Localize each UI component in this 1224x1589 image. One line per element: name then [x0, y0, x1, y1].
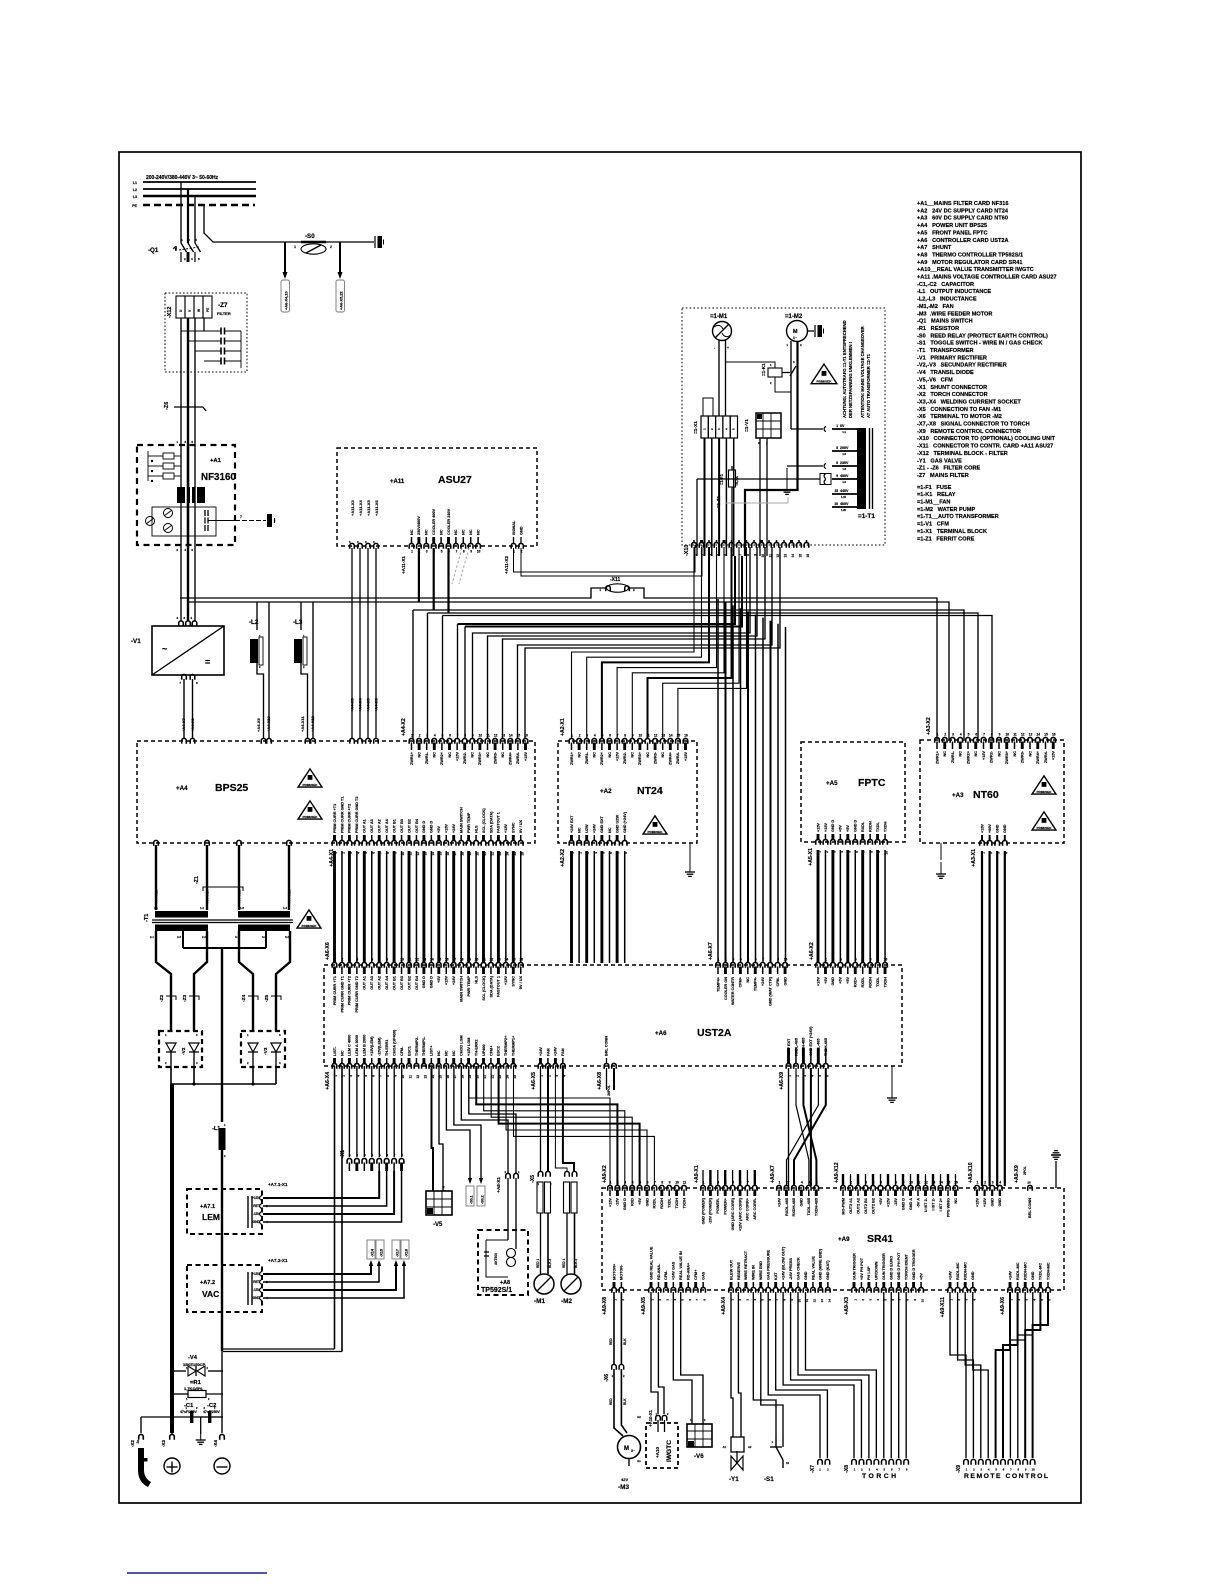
svg-text:7: 7	[654, 1181, 656, 1185]
svg-text:+5V: +5V	[638, 1198, 642, 1205]
svg-text:2: 2	[786, 1181, 788, 1185]
svg-text:+A4-X14: +A4-X14	[205, 888, 210, 905]
svg-text:2.3: 2.3	[177, 935, 181, 939]
svg-text:+5V: +5V	[839, 977, 843, 984]
svg-text:LEM: LEM	[202, 1212, 220, 1222]
svg-text:=1-M1: =1-M1	[710, 314, 728, 320]
svg-text:-S1: -S1	[764, 1476, 774, 1483]
svg-text:1: 1	[977, 1181, 979, 1185]
svg-text:SDA (DATA): SDA (DATA)	[489, 811, 493, 833]
svg-text:2.2: 2.2	[202, 935, 206, 939]
svg-text:+A9-X1: +A9-X1	[694, 1165, 700, 1183]
svg-text:47nF/250V: 47nF/250V	[203, 1410, 221, 1414]
svg-text:OUT A3: OUT A3	[370, 976, 374, 990]
svg-text:2POL: 2POL	[1023, 1166, 1027, 1175]
svg-text:1.1: 1.1	[842, 430, 846, 434]
svg-text:9: 9	[669, 1181, 671, 1185]
svg-text:GND: GND	[971, 1271, 975, 1280]
svg-text:NC: NC	[1028, 751, 1032, 757]
svg-text:-L1 OUTPUT INDUCTANCE: -L1 OUTPUT INDUCTANCE	[917, 289, 991, 295]
svg-text:-Y1: -Y1	[729, 1476, 739, 1483]
svg-text:+A5 FRONT PANEL FPTC: +A5 FRONT PANEL FPTC	[917, 230, 988, 236]
svg-text:TXDH: TXDH	[883, 821, 887, 832]
svg-text:+24V (BLOW OUT): +24V (BLOW OUT)	[781, 1246, 785, 1280]
net label +A6-X5,22	[336, 280, 345, 312]
footer link line	[127, 1572, 267, 1574]
svg-text:WATER CONTR: WATER CONTR	[731, 977, 735, 1005]
svg-text:10: 10	[1005, 733, 1009, 737]
svg-text:NC: NC	[452, 1050, 456, 1056]
diode V2b	[189, 1043, 199, 1052]
svg-text:+15V: +15V	[252, 1196, 261, 1200]
svg-text:ZWR2-: ZWR2-	[990, 750, 994, 763]
connector +A11-X3..X6 pins	[350, 543, 355, 548]
svg-text:6: 6	[975, 733, 977, 737]
svg-text:ZWR4+: ZWR4+	[1036, 750, 1040, 764]
svg-text:+A9-X10: +A9-X10	[968, 1162, 974, 1183]
wire phase taps to Q1	[180, 182, 182, 243]
wire feeder motor M3	[614, 1369, 623, 1436]
svg-text:THERMP2-: THERMP2-	[415, 1036, 419, 1056]
svg-text:1.6: 1.6	[240, 906, 244, 910]
svg-text:42V: 42V	[621, 1477, 628, 1482]
svg-text:=1-V1 CFM: =1-V1 CFM	[917, 522, 949, 528]
svg-text:ZWR4-: ZWR4-	[676, 751, 680, 764]
svg-text:RXDH: RXDH	[868, 821, 872, 832]
svg-text:TXDL: TXDL	[876, 821, 880, 832]
svg-text:RET: RET	[253, 1204, 261, 1208]
svg-text:-X11: -X11	[610, 577, 621, 583]
wire bundle -X10 to BPS25 +A4-X2 cascade	[473, 547, 751, 739]
svg-text:PRIM CURR +T1: PRIM CURR +T1	[333, 976, 337, 1005]
svg-text:+A6-X2: +A6-X2	[809, 942, 815, 960]
svg-text:RXDL: RXDL	[861, 821, 865, 832]
svg-text:-Z5: -Z5	[264, 994, 270, 1002]
svg-text:BLK: BLK	[623, 1338, 627, 1345]
svg-text:RXD: RXD	[631, 1198, 635, 1206]
svg-text:-X14: -X14	[371, 1248, 375, 1257]
warning triangle NT60 upper	[1032, 776, 1056, 794]
svg-text:+24V: +24V	[539, 1047, 543, 1056]
svg-text:BRL CONN: BRL CONN	[1028, 1198, 1032, 1218]
svg-text:UZW: UZW	[585, 824, 589, 833]
svg-text:=1-V1: =1-V1	[744, 419, 750, 432]
svg-text:=1-M1__FAN: =1-M1__FAN	[917, 500, 950, 506]
svg-text:=1-F1 FUSE: =1-F1 FUSE	[917, 485, 952, 491]
svg-text:ESC1: ESC1	[407, 1046, 411, 1056]
warning triangle NT24	[643, 816, 667, 834]
svg-text:+A7 SHUNT: +A7 SHUNT	[917, 245, 952, 251]
svg-text:4: 4	[594, 734, 596, 738]
svg-text:A1: A1	[637, 1459, 641, 1463]
svg-text:ESC2: ESC2	[497, 1046, 501, 1056]
svg-text:3: 3	[586, 734, 588, 738]
svg-text:20POL: 20POL	[607, 1085, 611, 1096]
svg-text:NC: NC	[417, 752, 421, 758]
svg-text:2: 2	[330, 245, 332, 249]
svg-text:=1-Z1 FERRIT CORE: =1-Z1 FERRIT CORE	[917, 536, 975, 542]
svg-text:200V: 200V	[840, 446, 849, 450]
svg-text:BLK 2: BLK 2	[548, 1259, 552, 1268]
svg-text:GND: GND	[645, 1198, 649, 1207]
svg-text:TXDH: TXDH	[883, 977, 887, 988]
svg-text:-X12 TERMINAL BLOCK - FILTER: -X12 TERMINAL BLOCK - FILTER	[917, 451, 1008, 457]
svg-text:+A7.2-X1: +A7.2-X1	[268, 1258, 288, 1263]
svg-text:LIST-: LIST-	[333, 1046, 337, 1056]
svg-text:TEMP4-: TEMP4-	[754, 976, 758, 991]
svg-text:OUT2 B2: OUT2 B2	[871, 1198, 875, 1214]
svg-text:12: 12	[416, 1075, 420, 1079]
svg-text:NC: NC	[746, 977, 750, 983]
svg-text:1: 1	[294, 245, 296, 249]
svg-text:GND UZW: GND UZW	[615, 814, 619, 833]
svg-text:LIST+: LIST+	[430, 1045, 434, 1056]
svg-text:5: 5	[639, 1181, 641, 1185]
svg-text:LEM A 3000: LEM A 3000	[355, 1035, 359, 1056]
svg-text:1: 1	[334, 1075, 338, 1077]
svg-text:GND D EURO: GND D EURO	[890, 1256, 894, 1280]
svg-text:-Q1 MAINS SWITCH: -Q1 MAINS SWITCH	[917, 319, 973, 325]
svg-text:-X7,-X8 SIGNAL CONNECTOR TO: -X7,-X8 SIGNAL CONNECTOR TO TORCH	[917, 422, 1030, 428]
svg-text:NF3160: NF3160	[201, 472, 236, 483]
svg-text:-X5 CONNECTION TO FAN -M1: -X5 CONNECTION TO FAN -M1	[917, 407, 1001, 413]
earth NT24	[689, 843, 691, 857]
svg-text:+15V: +15V	[816, 823, 820, 832]
motor connector second	[565, 1171, 570, 1176]
bus wire 3	[413, 610, 964, 739]
svg-text:2x: 2x	[136, 1440, 140, 1444]
svg-text:-X3,-X4 WELDING CURRENT SOCK: -X3,-X4 WELDING CURRENT SOCKET	[917, 399, 1021, 405]
svg-text:ACHTUNG: AUTOTRAFO =1-T1 ENTSP: ACHTUNG: AUTOTRAFO =1-T1 ENTSPRECHEND	[842, 320, 847, 418]
svg-text:GND: GND	[998, 1198, 1002, 1207]
svg-text:RXDL: RXDL	[861, 976, 865, 987]
svg-text:+A1: +A1	[210, 458, 222, 464]
svg-text:UP400: UP400	[482, 1044, 486, 1056]
svg-text:-X17: -X17	[396, 1249, 400, 1257]
svg-text:-X10: -X10	[684, 545, 690, 556]
power unit card A4 BPS25 box	[137, 741, 535, 843]
svg-text:ARC CORR+: ARC CORR+	[746, 1197, 750, 1220]
svg-text:M: M	[624, 1446, 629, 1452]
svg-text:13: 13	[661, 734, 665, 738]
svg-text:+A9-X11: +A9-X11	[940, 1297, 946, 1317]
svg-text:GND EXT: GND EXT	[600, 815, 604, 833]
svg-text:+15V: +15V	[982, 751, 986, 760]
fan -M1	[534, 1274, 554, 1294]
svg-text:BLK 2: BLK 2	[574, 1259, 578, 1268]
svg-text:-C1,-C2 CAPACITOR: -C1,-C2 CAPACITOR	[917, 282, 974, 288]
svg-text:NC: NC	[469, 529, 473, 535]
svg-text:+A7.2: +A7.2	[200, 1280, 215, 1286]
svg-text:A2: A2	[637, 1415, 641, 1419]
svg-text:ZWR4+: ZWR4+	[669, 751, 673, 765]
svg-text:+5V: +5V	[846, 825, 850, 832]
svg-text:+A6-X6: +A6-X6	[325, 942, 331, 960]
thermo switches	[507, 1249, 516, 1258]
svg-text:RXDH-485: RXDH-485	[792, 1198, 796, 1216]
wire LEM to shunt connector	[263, 1171, 379, 1198]
svg-text:4: 4	[740, 958, 742, 962]
wire T1 center taps	[182, 931, 184, 948]
svg-text:PH LSP: PH LSP	[867, 1266, 871, 1280]
svg-text:GND: GND	[831, 977, 835, 986]
svg-text:REAL VALUE IN: REAL VALUE IN	[679, 1251, 683, 1280]
svg-text:10: 10	[639, 734, 643, 738]
svg-text:3: 3	[624, 1181, 626, 1185]
svg-text:2: 2	[710, 1181, 712, 1185]
svg-text:FPTC: FPTC	[858, 777, 886, 789]
svg-text:COOLER 230V: COOLER 230V	[447, 508, 451, 535]
svg-text:PRIM/SEK: PRIM/SEK	[817, 379, 833, 383]
wire cascade UST2A X4 to V5 and thermo	[432, 1066, 434, 1191]
warning triangle BPS25 upper	[298, 769, 322, 787]
svg-text:-S0 REED RELAY (PROTECT EART: -S0 REED RELAY (PROTECT EARTH CONTROL)	[917, 333, 1048, 339]
svg-text:-M3 .WIRE FEEDER MOTOR: -M3 .WIRE FEEDER MOTOR	[917, 311, 992, 317]
svg-text:L2: L2	[133, 188, 137, 192]
svg-text:FAN: FAN	[561, 1048, 565, 1056]
svg-text:+A4-X10: +A4-X10	[266, 715, 271, 732]
svg-text:-Z6: -Z6	[164, 402, 170, 410]
svg-text:1: 1	[571, 734, 573, 738]
svg-text:+15V: +15V	[983, 1198, 987, 1207]
wire stubs above SR41 X1	[702, 1170, 704, 1186]
svg-text:CFM-: CFM-	[664, 1270, 668, 1280]
svg-text:NC: NC	[501, 752, 505, 758]
svg-text:1: 1	[411, 734, 413, 738]
svg-text:UST2A: UST2A	[697, 1027, 732, 1039]
svg-text:+A9-X6: +A9-X6	[1000, 1297, 1006, 1315]
svg-text:400V: 400V	[840, 474, 849, 478]
svg-text:U IST 2-: U IST 2-	[924, 1197, 928, 1212]
svg-text:-Z7 MAINS FILTER: -Z7 MAINS FILTER	[917, 473, 969, 479]
wire bundle BPS25 X1 to UST2A X6	[333, 851, 336, 963]
svg-text:-X12: -X12	[167, 307, 173, 318]
svg-text:L1: L1	[133, 181, 137, 185]
svg-text:RXDH: RXDH	[660, 1198, 664, 1209]
svg-text:GND D: GND D	[430, 821, 434, 833]
wire UST2A X8 stubs	[606, 1068, 608, 1090]
svg-text:+24V: +24V	[761, 977, 765, 986]
svg-text:GAS PRESSURE: GAS PRESSURE	[767, 1249, 771, 1280]
svg-text:-X2: -X2	[130, 1440, 135, 1448]
svg-text:=: =	[205, 657, 210, 667]
svg-text:-X18: -X18	[405, 1249, 409, 1257]
svg-text:NC: NC	[445, 1050, 449, 1056]
svg-text:+A10__REAL VALUE TRANSMITTER I: +A10__REAL VALUE TRANSMITTER IWGTC	[917, 267, 1034, 273]
wire ASU27 X2 to aux unit	[514, 545, 696, 572]
wire PE tap to earth check	[204, 205, 301, 242]
svg-text:THERMP1-: THERMP1-	[422, 1036, 426, 1056]
wire center tap down (welding output minus)	[221, 948, 223, 1122]
svg-text:GND REAL VALUE: GND REAL VALUE	[649, 1246, 653, 1280]
svg-text:ZWR2-: ZWR2-	[463, 751, 467, 764]
svg-text:GND: GND	[1003, 824, 1007, 833]
connector sockets BPS25 top-left wires	[182, 738, 187, 743]
svg-text:GND (ARC CORR): GND (ARC CORR)	[731, 1197, 735, 1230]
svg-text:+: +	[727, 346, 729, 350]
wire bundle -X10 to NT24 +A2-X1 cascade	[572, 547, 695, 739]
svg-text:-L2,-L3 INDUCTANCE: -L2,-L3 INDUCTANCE	[917, 297, 977, 303]
svg-text:CHOA (UP400): CHOA (UP400)	[392, 1029, 396, 1056]
svg-text:FASTOUT 1: FASTOUT 1	[497, 812, 501, 833]
svg-text:GND D: GND D	[854, 820, 858, 832]
svg-text:5: 5	[602, 734, 604, 738]
svg-text:+A11-X5: +A11-X5	[366, 500, 371, 516]
svg-text:9: 9	[777, 958, 779, 962]
svg-text:TH-ERR1: TH-ERR1	[385, 1040, 389, 1056]
svg-text:NC: NC	[943, 751, 947, 757]
svg-text:L3: L3	[133, 195, 137, 199]
svg-text:PRIM/SEK: PRIM/SEK	[648, 830, 664, 834]
svg-text:ZWR1-: ZWR1-	[425, 751, 429, 764]
svg-text:BLK: BLK	[623, 1398, 627, 1405]
svg-text:2: 2	[725, 958, 727, 962]
svg-text:PRIM CURR +T1: PRIM CURR +T1	[333, 804, 337, 833]
Z7 filter capacitors	[181, 330, 221, 332]
svg-text:+5V: +5V	[824, 977, 828, 984]
svg-text:NC: NC	[974, 751, 978, 757]
front panel card A5 FPTC box	[801, 742, 905, 842]
svg-text:+A11-X1: +A11-X1	[401, 556, 406, 574]
svg-text:RESERVE: RESERVE	[737, 1261, 741, 1280]
svg-text:NC: NC	[593, 752, 597, 758]
svg-text:GND: GND	[252, 1296, 260, 1300]
svg-text:230V/400V: 230V/400V	[417, 516, 421, 535]
svg-text:MOTOR-: MOTOR-	[620, 1264, 624, 1280]
svg-text:NC: NC	[476, 529, 480, 535]
svg-text:9: 9	[836, 474, 838, 478]
svg-text:PRIM CURR GND T2: PRIM CURR GND T2	[355, 797, 359, 834]
svg-text:PRIM/SEK: PRIM/SEK	[302, 924, 318, 928]
svg-text:GND: GND	[804, 1271, 808, 1280]
svg-text:=1-X1: =1-X1	[693, 421, 699, 434]
svg-text:+A4-X4: +A4-X4	[357, 698, 362, 712]
svg-text:+5V PH POT: +5V PH POT	[860, 1257, 864, 1280]
svg-text:+A6-X5: +A6-X5	[531, 1072, 537, 1090]
svg-text:+A9-X12: +A9-X12	[834, 1162, 840, 1183]
svg-text:+A9-X2: +A9-X2	[602, 1165, 608, 1183]
net labels -X17 -X18	[392, 1240, 400, 1259]
wire BPS25 to transformer T1 primary	[154, 840, 159, 845]
svg-text:ZWR1+: ZWR1+	[935, 750, 939, 764]
svg-text:4: 4	[632, 1181, 634, 1185]
svg-text:+A4-X16: +A4-X16	[287, 888, 292, 905]
svg-text:-X6: -X6	[604, 1374, 610, 1382]
svg-text:8: 8	[464, 734, 466, 738]
svg-text:3: 3	[733, 958, 735, 962]
svg-text:6: 6	[755, 958, 757, 962]
svg-text:+A9-X4: +A9-X4	[721, 1297, 727, 1315]
svg-text:+A9-X9: +A9-X9	[1014, 1165, 1020, 1183]
svg-text:PWR TEMP: PWR TEMP	[467, 812, 471, 833]
plus terminal	[164, 1458, 180, 1474]
svg-text:15: 15	[517, 734, 521, 738]
svg-text:+A8-X1: +A8-X1	[496, 1177, 501, 1193]
svg-text:5: 5	[732, 1181, 734, 1185]
svg-text:+5V: +5V	[879, 1198, 883, 1205]
svg-text:OUT B3: OUT B3	[400, 819, 404, 833]
svg-text:13: 13	[423, 1075, 427, 1079]
svg-text:POWER-: POWER-	[716, 1197, 720, 1213]
wire SR41 X5 to CFM V6	[673, 1292, 692, 1424]
wire L1 down to ladder	[221, 1150, 223, 1351]
svg-text:14: 14	[669, 734, 673, 738]
svg-text:-X1: -X1	[340, 1150, 346, 1158]
svg-text:PRIM/SEK: PRIM/SEK	[1037, 790, 1053, 794]
svg-text:GND A: GND A	[909, 1198, 913, 1210]
CFM -V6	[687, 1424, 712, 1447]
svg-text:ATTENTION: MAINS VOLTAGE CHANG: ATTENTION: MAINS VOLTAGE CHANGEOVER	[860, 326, 865, 418]
wire FPTC X1 down to UST2A X2	[817, 850, 820, 963]
svg-text:11: 11	[1013, 733, 1017, 737]
svg-text:1.6: 1.6	[842, 467, 846, 471]
svg-text:GND D PH POT: GND D PH POT	[897, 1252, 901, 1280]
svg-text:SDA (DATA): SDA (DATA)	[489, 975, 493, 997]
svg-text:GND D: GND D	[430, 976, 434, 988]
warning triangle =1	[811, 364, 837, 384]
svg-text:10: 10	[786, 1461, 790, 1465]
svg-text:+A3-X1: +A3-X1	[971, 849, 977, 867]
svg-text:SCL (CLOCK): SCL (CLOCK)	[482, 975, 486, 1000]
svg-text:6: 6	[609, 734, 611, 738]
wire risers +A4-X2 odd pins	[412, 610, 414, 739]
svg-text:6: 6	[816, 1181, 818, 1185]
svg-text:GND: GND	[252, 1220, 260, 1224]
svg-text:TH-ERR2: TH-ERR2	[474, 1040, 478, 1056]
wire V1 to BPS25 (+A4-X7 +A4-X8)	[183, 679, 185, 739]
svg-text:12: 12	[654, 734, 658, 738]
svg-text:3.2: 3.2	[285, 935, 289, 939]
svg-text:20: 20	[834, 502, 838, 506]
svg-text:+A6-X5,22: +A6-X5,22	[339, 290, 344, 310]
svg-text:-T1 TRANSFORMER: -T1 TRANSFORMER	[917, 348, 974, 354]
wire NT24 X2 down to UST2A	[570, 851, 573, 963]
svg-text:NC: NC	[437, 1050, 441, 1056]
svg-text:11: 11	[486, 734, 490, 738]
svg-text:PRIM/SEK: PRIM/SEK	[1037, 826, 1053, 830]
svg-text:-15V: -15V	[616, 1198, 620, 1206]
wire current sense pair to UST2A	[223, 1348, 335, 1350]
earth at A9-X9	[1055, 1161, 1057, 1188]
svg-text:10: 10	[784, 958, 788, 962]
svg-text:GND (+24V): GND (+24V)	[623, 811, 627, 833]
wire phases through NF3160	[180, 445, 182, 545]
svg-text:+A4-X12: +A4-X12	[310, 715, 315, 732]
svg-text:WIRE END: WIRE END	[759, 1261, 763, 1280]
svg-text:ARC CORR-: ARC CORR-	[753, 1197, 757, 1219]
svg-text:+A2 24V DC SUPPLY CARD NT24: +A2 24V DC SUPPLY CARD NT24	[917, 208, 1009, 214]
svg-text:+A4-X6: +A4-X6	[373, 698, 378, 712]
svg-text:GND (WAT CTR): GND (WAT CTR)	[768, 976, 772, 1006]
svg-text:+A10-X1: +A10-X1	[648, 1409, 653, 1426]
svg-text:PRIM CURR GND T1: PRIM CURR GND T1	[340, 797, 344, 834]
svg-text:NC: NC	[410, 529, 414, 535]
svg-text:+5V: +5V	[839, 825, 843, 832]
svg-text:NT60: NT60	[973, 789, 999, 801]
svg-text:ZWR3-: ZWR3-	[653, 751, 657, 764]
wire M1 to terminal block	[718, 340, 720, 416]
svg-text:+A11-X4: +A11-X4	[358, 500, 363, 516]
svg-text:+A4-X9: +A4-X9	[256, 718, 261, 732]
svg-text:FAN: FAN	[546, 1048, 550, 1056]
svg-text:ZWR3-: ZWR3-	[493, 751, 497, 764]
svg-text:-X7: -X7	[810, 1465, 816, 1473]
svg-text:~: ~	[162, 644, 167, 654]
svg-text:12: 12	[494, 734, 498, 738]
wire S0 pin2 drop	[339, 242, 341, 272]
svg-text:+A3-X2: +A3-X2	[926, 717, 932, 735]
svg-text:OUT A3: OUT A3	[370, 819, 374, 833]
